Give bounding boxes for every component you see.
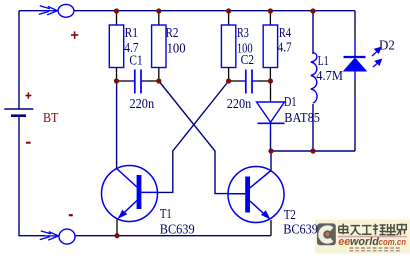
label R2 value xyxy=(166,26,186,56)
battery minus sign xyxy=(26,142,31,144)
arrow (bottom terminal) xyxy=(40,231,59,240)
arrow (top input terminal) xyxy=(39,6,58,15)
watermark background xyxy=(315,220,410,254)
svg-text:4.7M: 4.7M xyxy=(316,69,343,84)
wire T2 collector to mid rail xyxy=(270,151,272,171)
svg-text:100: 100 xyxy=(167,41,186,56)
minus sign near bottom terminal xyxy=(69,214,73,216)
svg-text:R3: R3 xyxy=(237,26,249,41)
resistor R2 xyxy=(152,11,166,81)
svg-text:R2: R2 xyxy=(166,26,179,41)
junction node R1 top xyxy=(114,8,119,13)
junction node R2 top xyxy=(156,8,161,13)
svg-text:BAT85: BAT85 xyxy=(284,111,320,126)
watermark chinese title 电子工程世界 xyxy=(339,224,407,236)
wire left vertical lower (battery - to bottom rail) xyxy=(19,116,45,236)
battery plus sign xyxy=(25,92,31,98)
watermark small slogan xyxy=(350,248,400,251)
capacitor C2 xyxy=(229,70,271,94)
junction node R3 top xyxy=(226,8,231,13)
wire top rail xyxy=(74,10,355,12)
label R1 value xyxy=(124,26,138,56)
svg-text:C2: C2 xyxy=(241,53,255,68)
junction node C1 right xyxy=(156,78,161,83)
svg-text:BC639: BC639 xyxy=(283,223,318,238)
junction node C2 left xyxy=(226,78,231,83)
wire R2 bottom to T2 base (diagonal cross) xyxy=(159,81,229,194)
svg-text:220n: 220n xyxy=(130,97,155,112)
wire top-left horizontal xyxy=(19,10,45,12)
svg-text:D2: D2 xyxy=(379,38,395,53)
svg-text:D1: D1 xyxy=(284,95,296,110)
svg-text:.com.cn: .com.cn xyxy=(377,237,407,247)
svg-text:ee: ee xyxy=(338,236,350,248)
resistor R3 xyxy=(221,11,235,81)
svg-text:220n: 220n xyxy=(227,97,252,112)
svg-text:C1: C1 xyxy=(129,53,142,68)
junction node R4 top xyxy=(268,8,273,13)
junction node D1 cathode / mid rail xyxy=(268,148,273,153)
battery BT xyxy=(4,109,33,116)
diode D1 xyxy=(257,81,285,151)
label R3 value xyxy=(237,26,253,57)
LED D2 xyxy=(344,11,367,151)
svg-text:world: world xyxy=(350,236,379,248)
resistor R1 xyxy=(109,11,123,81)
wire left vertical upper (to battery +) xyxy=(18,11,20,109)
svg-text:T1: T1 xyxy=(160,207,172,222)
watermark eeworld.com.cn xyxy=(338,236,406,248)
junction node T1 emitter / bottom rail xyxy=(114,233,119,238)
junction node L1 top xyxy=(310,8,315,13)
junction node C2 right xyxy=(268,78,273,83)
LED emission arrows xyxy=(372,48,381,68)
watermark divider rule xyxy=(338,236,407,238)
svg-text:R4: R4 xyxy=(279,26,291,41)
svg-text:4.7: 4.7 xyxy=(278,41,292,56)
inductor L1 xyxy=(311,11,317,151)
transistor T1 xyxy=(102,166,158,236)
capacitor C1 xyxy=(117,70,159,94)
svg-text:R1: R1 xyxy=(125,26,138,41)
label R4 value xyxy=(278,26,292,56)
wire R3 bottom to T1 base (diagonal cross) xyxy=(158,81,229,192)
plus sign near top terminal xyxy=(71,31,78,38)
transistor T2 xyxy=(228,167,284,236)
svg-text:T2: T2 xyxy=(284,208,296,223)
terminal circle top xyxy=(58,4,74,17)
resistor R4 xyxy=(263,11,277,81)
watermark logo box xyxy=(317,223,336,245)
wire mid rail xyxy=(271,150,355,152)
wire R1 bottom to T1 collector xyxy=(116,81,118,169)
junction node C1 left xyxy=(114,78,119,83)
svg-text:BT: BT xyxy=(43,111,59,126)
wire bottom rail xyxy=(75,235,271,237)
terminal circle bottom xyxy=(59,229,75,244)
watermark logo C xyxy=(321,228,332,241)
svg-text:L1: L1 xyxy=(318,54,329,69)
junction node L1 bottom / mid rail xyxy=(310,148,315,153)
